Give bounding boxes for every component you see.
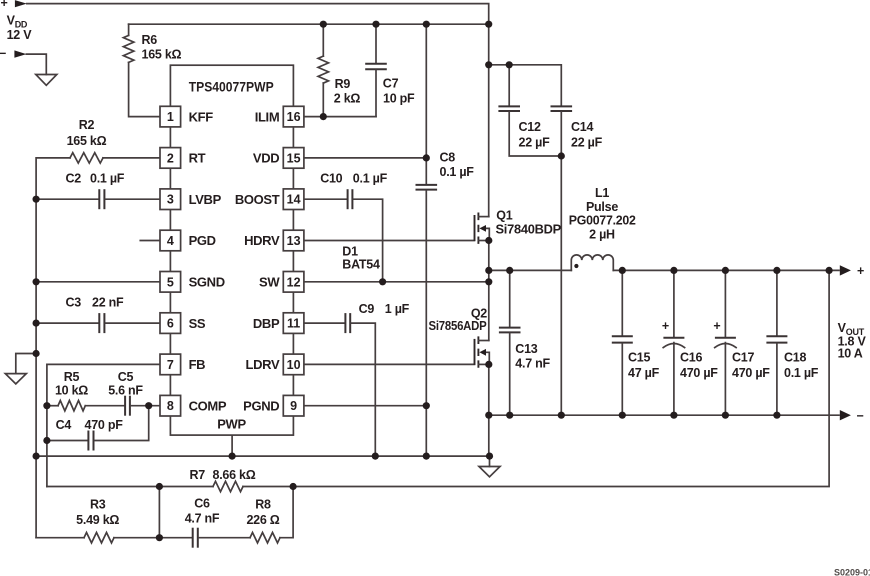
label VDD 12 V source [7, 14, 33, 42]
wire left bus ground stub [16, 354, 36, 374]
svg-text:10 A: 10 A [838, 347, 863, 361]
svg-text:R5: R5 [64, 370, 80, 384]
svg-text:SGND: SGND [189, 275, 225, 290]
wire HDRV pin13 to Q1 gate [304, 240, 475, 242]
junction return rail x C17 [722, 412, 729, 419]
svg-text:−: − [0, 46, 6, 60]
svg-text:R6: R6 [142, 33, 158, 47]
junction COMP x C4 branch [145, 402, 152, 409]
svg-text:LDRV: LDRV [246, 357, 280, 372]
wire R7 to VOUT sense vertical [243, 270, 829, 486]
svg-text:22 µF: 22 µF [571, 136, 603, 150]
wire Q2 source to ground [488, 364, 490, 456]
node VOUT - terminal [840, 409, 864, 423]
value Q1 Si7840BDP [496, 209, 562, 237]
value R6 165 kOhm [142, 33, 182, 62]
junction bottom rail x PWP [229, 453, 236, 460]
wire BOOST pin14 to C10 [304, 198, 347, 200]
svg-text:R7: R7 [190, 468, 206, 482]
value D1 BAT54 [342, 245, 380, 272]
wire LDRV pin10 to Q2 gate [304, 363, 475, 365]
pin 5 SGND [160, 272, 225, 293]
wire DBP pin11 to C9 [304, 322, 344, 324]
wire FB node to R7 row and VOUT sense [47, 486, 213, 488]
svg-text:+: + [662, 319, 669, 333]
node VOUT + terminal [840, 264, 864, 278]
resistor R5 [47, 401, 124, 411]
svg-text:PGD: PGD [189, 233, 216, 248]
svg-text:470 pF: 470 pF [85, 418, 124, 432]
svg-text:0.1 µF: 0.1 µF [440, 165, 475, 179]
wire RT pin2 to R2 [103, 157, 160, 159]
junction VOUT rail x C15 [619, 267, 626, 274]
pin 4 PGD [140, 230, 215, 251]
svg-text:TPS40077PWP: TPS40077PWP [189, 79, 274, 95]
svg-text:6: 6 [167, 317, 174, 331]
svg-text:+: + [713, 319, 720, 333]
wire - terminal to ground [26, 54, 46, 74]
wire VOUT return rail [489, 414, 839, 416]
junction FB node x C4 [43, 437, 50, 444]
value C15 47 uF [628, 351, 660, 381]
svg-text:5.49 kΩ: 5.49 kΩ [76, 513, 119, 527]
wire ground stub center [489, 456, 491, 466]
junction VOUT rail x C18 [773, 267, 780, 274]
svg-text:Si7856ADP: Si7856ADP [429, 319, 487, 333]
junction bottom rail x C8 [423, 453, 430, 460]
wire C10 to SW node (D1 net) [353, 199, 382, 282]
wire C9 down to ground rail [351, 323, 375, 456]
svg-text:R8: R8 [255, 498, 271, 512]
junction PGND x C8 line [423, 402, 430, 409]
svg-text:VDD: VDD [253, 151, 279, 166]
junction L1 rail x C13 [506, 267, 513, 274]
pin 10 LDRV [246, 354, 304, 375]
junction KFF rail x R9 [320, 21, 327, 28]
svg-text:PG0077.202: PG0077.202 [569, 214, 636, 228]
wire VIN vertical down to Q1 drain [488, 65, 490, 217]
op-amp U1 TPS40077PWP controller body [170, 65, 293, 435]
svg-text:R3: R3 [90, 498, 106, 512]
value C13 4.7 nF [515, 342, 550, 371]
pin 15 VDD [253, 148, 304, 169]
junction bottom rail x C9 [372, 453, 379, 460]
svg-text:C13: C13 [515, 342, 537, 356]
svg-text:7: 7 [167, 358, 174, 372]
svg-text:S0209-01: S0209-01 [834, 568, 870, 576]
svg-text:11: 11 [287, 317, 300, 331]
capacitor C13 [499, 270, 521, 415]
value C6 4.7 nF [185, 497, 220, 526]
junction return rail x Q2 source [485, 412, 492, 419]
transistor Q1 [475, 213, 490, 244]
capacitor C8 [416, 24, 438, 456]
svg-text:10 pF: 10 pF [383, 92, 415, 106]
wire switch node to L1 [489, 269, 572, 271]
svg-text:C12: C12 [519, 120, 541, 134]
svg-text:C15: C15 [628, 351, 650, 365]
pin 11 DBP [253, 313, 304, 334]
capacitor C16 (polarized) [663, 270, 684, 415]
junction KFF rail x VIN [485, 21, 492, 28]
junction C12/C14 bottom [558, 152, 565, 159]
junction R7 row x R8 branch [290, 483, 297, 490]
svg-text:R9: R9 [335, 77, 351, 91]
svg-text:C14: C14 [571, 120, 593, 134]
resistor R9 [318, 24, 328, 116]
capacitor C2 [36, 189, 160, 209]
svg-text:1 µF: 1 µF [385, 302, 410, 316]
capacitor C18 [766, 270, 787, 415]
svg-text:8: 8 [167, 399, 174, 413]
junction Q2 source [485, 361, 492, 368]
svg-text:HDRV: HDRV [244, 233, 280, 248]
wire PGND pin9 to C8 line [304, 405, 426, 407]
value C16 470 uF [680, 351, 718, 381]
junction SW x C10 branch [379, 278, 386, 285]
svg-text:165 kΩ: 165 kΩ [142, 48, 182, 62]
resistor R8 [250, 487, 293, 543]
junction return rail x C16 [670, 412, 677, 419]
svg-text:C9: C9 [359, 302, 375, 316]
svg-text:226 Ω: 226 Ω [246, 513, 279, 527]
capacitor C15 [612, 270, 633, 415]
capacitor C10 [348, 189, 353, 209]
svg-text:0.1 µF: 0.1 µF [353, 172, 388, 186]
svg-text:ILIM: ILIM [255, 109, 280, 124]
svg-text:3: 3 [167, 193, 174, 207]
svg-text:5: 5 [167, 275, 174, 289]
svg-text:47 µF: 47 µF [628, 366, 660, 380]
svg-text:SS: SS [189, 316, 206, 331]
junction R3 x C6 tap [156, 534, 163, 541]
value R3 5.49 kOhm [76, 498, 119, 528]
svg-text:C5: C5 [118, 370, 134, 384]
svg-text:165 kΩ: 165 kΩ [67, 134, 107, 148]
pin 8 COMP [160, 395, 227, 416]
pin 7 FB [160, 354, 205, 375]
svg-text:L1: L1 [595, 186, 609, 200]
svg-text:C17: C17 [732, 351, 754, 365]
junction R7 row x divider tap [156, 483, 163, 490]
svg-text:RT: RT [189, 151, 206, 166]
svg-text:PGND: PGND [243, 398, 279, 413]
pin 6 SS [160, 313, 206, 334]
capacitor C17 (polarized) [715, 270, 736, 415]
pin 13 HDRV [244, 230, 304, 251]
junction VOUT rail x C17 [722, 267, 729, 274]
junction FB node x R5 [43, 402, 50, 409]
node VDD input + terminal [1, 0, 27, 10]
capacitor C3 [36, 313, 160, 333]
resistor R2 [70, 153, 103, 163]
junction C12 top [506, 61, 513, 68]
capacitor C4 [47, 406, 149, 451]
junction left bus x SGND [33, 278, 40, 285]
junction VDD x C8 [423, 154, 430, 161]
value R9 2 kOhm [334, 77, 361, 106]
value C8 0.1 uF [440, 151, 475, 180]
svg-text:FB: FB [189, 357, 206, 372]
value C12 22 uF [519, 120, 551, 150]
junction left bus x C3 [33, 320, 40, 327]
pin 16 ILIM [255, 106, 304, 127]
svg-text:14: 14 [287, 193, 301, 207]
svg-text:470 µF: 470 µF [732, 366, 770, 380]
ground (power ground center) [479, 467, 500, 477]
wire SW pin12 to switch node [304, 281, 489, 283]
svg-text:Pulse: Pulse [586, 200, 618, 214]
svg-text:12: 12 [287, 275, 301, 289]
junction return rail x C13 [506, 412, 513, 419]
wire KFF top rail y=24 [129, 23, 489, 25]
junction return rail x C15 [619, 412, 626, 419]
svg-text:470 µF: 470 µF [680, 366, 718, 380]
value C18 0.1 uF [784, 351, 819, 381]
value Q2 Si7856ADP [429, 307, 488, 334]
svg-text:LVBP: LVBP [189, 192, 222, 207]
wire SGND pin5 to left bus [36, 281, 160, 283]
svg-text:C2: C2 [66, 172, 82, 186]
svg-text:0.1 µF: 0.1 µF [90, 172, 125, 186]
resistor R6 [123, 24, 160, 116]
junction Q1 source [485, 237, 492, 244]
pin 3 LVBP [160, 189, 222, 210]
junction switch node x L1 rail [485, 267, 492, 274]
svg-text:C3: C3 [66, 296, 82, 310]
wire left bus vertical [36, 158, 70, 538]
capacitor C12 [498, 65, 561, 156]
svg-text:9: 9 [290, 399, 297, 413]
svg-text:5.6 nF: 5.6 nF [108, 384, 143, 398]
junction KFF rail x C8 [423, 21, 430, 28]
junction return rail x C14 [558, 412, 565, 419]
svg-text:Si7840BDP: Si7840BDP [496, 223, 562, 237]
junction left bus x bottom rail [33, 453, 40, 460]
svg-text:2 µH: 2 µH [589, 228, 615, 242]
svg-text:16: 16 [287, 110, 301, 124]
svg-text:DBP: DBP [253, 316, 280, 331]
junction KFF rail x C7 [372, 21, 379, 28]
svg-text:15: 15 [287, 151, 301, 165]
svg-text:R2: R2 [79, 118, 95, 132]
junction return rail x C18 [773, 412, 780, 419]
value C14 22 uF [571, 120, 603, 150]
svg-text:C10: C10 [320, 172, 342, 186]
value C7 10 pF [383, 77, 415, 106]
svg-text:D1: D1 [342, 245, 358, 259]
junction ILIM x R9 [320, 113, 327, 120]
wire analog ground bottom rail [36, 455, 489, 457]
wire VIN top rail from + terminal to VIN vertical [27, 4, 489, 65]
value C17 470 uF [732, 351, 770, 381]
wire FB pin7 to feedback node vertical [47, 364, 160, 486]
junction SW x switch vertical [485, 278, 492, 285]
capacitor C9 [345, 313, 350, 333]
svg-text:2: 2 [167, 151, 174, 165]
svg-text:C8: C8 [440, 151, 456, 165]
svg-text:+: + [857, 264, 864, 278]
svg-text:PWP: PWP [217, 417, 246, 432]
junction VIN x input cap branch [485, 61, 492, 68]
value C5 5.6 nF [108, 370, 143, 398]
svg-text:COMP: COMP [189, 398, 227, 413]
value R2 165 kOhm [67, 118, 107, 148]
pin 2 RT [160, 148, 206, 169]
value L1 Pulse PG0077.202 2 uH [569, 186, 636, 242]
capacitor C14 [551, 106, 573, 415]
ground (input return) [36, 75, 57, 86]
capacitor C6 [159, 528, 250, 548]
transistor Q2 [475, 336, 490, 367]
svg-text:C4: C4 [56, 418, 72, 432]
inductor L1 [571, 255, 613, 271]
svg-text:BAT54: BAT54 [342, 258, 380, 272]
svg-text:Q1: Q1 [496, 209, 512, 223]
pin 14 BOOST [235, 189, 304, 210]
svg-text:22 nF: 22 nF [92, 296, 124, 310]
value R8 226 Ohm [246, 498, 279, 528]
value R5 10 kOhm [55, 370, 88, 398]
pin 1 KFF [160, 106, 213, 127]
svg-text:8.66 kΩ: 8.66 kΩ [213, 468, 256, 482]
label VOUT 1.8 V 10 A [838, 321, 867, 361]
wire divider tap vertical [158, 487, 160, 538]
svg-text:BOOST: BOOST [235, 192, 280, 207]
wire VDD pin15 to C8 [304, 157, 426, 159]
capacitor C5 [125, 396, 160, 416]
wire VIN branch to input caps [489, 65, 562, 106]
ground (signal ground left) [5, 374, 26, 384]
svg-text:SW: SW [259, 275, 280, 290]
wire VOUT top rail [613, 269, 839, 271]
resistor R3 [36, 533, 159, 543]
junction left bus x ground stub [33, 350, 40, 357]
junction VOUT rail x sense line [826, 267, 833, 274]
svg-text:C18: C18 [784, 351, 806, 365]
svg-text:10: 10 [287, 358, 301, 372]
node VDD input - terminal [0, 46, 26, 60]
svg-text:22 µF: 22 µF [519, 136, 551, 150]
svg-text:KFF: KFF [189, 109, 214, 124]
svg-text:4.7 nF: 4.7 nF [515, 357, 550, 371]
resistor R7 [213, 481, 243, 491]
svg-text:2 kΩ: 2 kΩ [334, 92, 361, 106]
svg-text:1: 1 [167, 110, 174, 124]
svg-text:C7: C7 [383, 77, 399, 91]
junction bottom rail x ground [486, 453, 493, 460]
wire PWP pad stub [231, 435, 233, 456]
svg-text:10 kΩ: 10 kΩ [55, 384, 88, 398]
junction left bus x C2 [33, 196, 40, 203]
svg-text:0.1 µF: 0.1 µF [784, 366, 819, 380]
wire switch node vertical Q1 source to Q2 drain [488, 241, 490, 341]
wire ILIM pin16 to C7 [304, 116, 376, 118]
svg-text:4.7 nF: 4.7 nF [185, 512, 220, 526]
svg-text:4: 4 [167, 234, 174, 248]
pin 9 PGND [243, 395, 304, 416]
svg-text:12 V: 12 V [7, 28, 33, 42]
svg-text:C16: C16 [680, 351, 702, 365]
svg-text:C6: C6 [194, 497, 210, 511]
junction VOUT rail x C16 [670, 267, 677, 274]
svg-text:+: + [1, 0, 8, 10]
svg-text:−: − [857, 409, 864, 423]
svg-text:13: 13 [287, 234, 301, 248]
pin 12 SW [259, 272, 304, 293]
capacitor C7 [365, 24, 387, 116]
